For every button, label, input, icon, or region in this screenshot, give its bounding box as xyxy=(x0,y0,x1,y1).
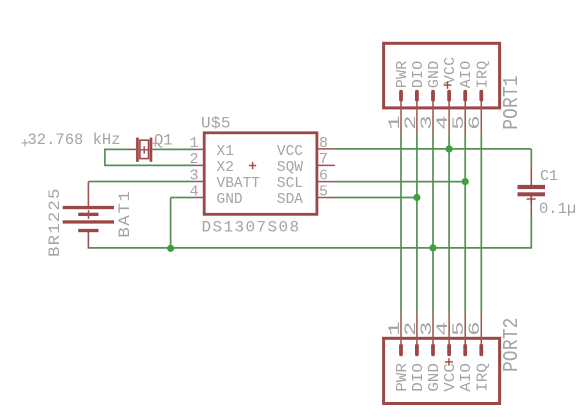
PORT2 pin 5 lead xyxy=(464,313,466,345)
svg-text:5: 5 xyxy=(319,183,328,200)
svg-text:PWR: PWR xyxy=(395,61,411,88)
PORT2 pin 3 pad xyxy=(431,344,435,357)
svg-text:0.1µ: 0.1µ xyxy=(539,200,576,218)
wire net VCC: IC pin 8 to right corner xyxy=(334,149,531,166)
battery BAT1 plate 1 (long) xyxy=(63,206,114,209)
IC pin 5 stub (SDA) xyxy=(317,197,334,199)
crystal Q1 right lead xyxy=(153,148,156,150)
wire column VCC between ports xyxy=(448,133,450,313)
connector PORT1 box xyxy=(384,43,500,108)
wire net SDA: IC pin 5 to DIO column xyxy=(334,197,417,199)
svg-text:GND: GND xyxy=(427,61,443,88)
PORT1 pin 5 pad xyxy=(463,90,467,102)
wire GND bus horizontal xyxy=(88,247,531,249)
PORT2 pin 6 lead xyxy=(480,313,482,345)
PORT1 pin 6 lead xyxy=(480,101,482,134)
battery BAT1 plate 3 (long) xyxy=(63,220,114,223)
junction GND bus / GND column xyxy=(429,244,436,251)
capacitor C1 bottom plate xyxy=(518,192,546,196)
svg-text:Q1: Q1 xyxy=(154,132,173,150)
IC pin 6 stub (SCL) xyxy=(317,181,335,183)
wire net GND: IC pin 4 to vertical drop xyxy=(171,198,193,249)
battery BAT1 bottom lead xyxy=(87,232,89,249)
PORT1 pin 2 lead xyxy=(416,101,418,134)
wire net X1: crystal right side to IC pin 1 xyxy=(155,148,193,150)
battery BAT1 plate 2 (short) xyxy=(78,213,98,216)
svg-text:IRQ: IRQ xyxy=(476,61,492,88)
IC pin 8 stub (VCC) xyxy=(317,148,334,150)
wire net X1: from loop corner to crystal left lead xyxy=(105,148,129,150)
crystal Q1 origin cross xyxy=(141,146,148,153)
wire net X2: left vertical of loop xyxy=(104,149,106,166)
svg-text:VBATT: VBATT xyxy=(217,176,261,192)
IC pin 4 stub (GND) xyxy=(193,197,204,199)
IC pin 1 stub (X1) xyxy=(193,148,204,150)
svg-text:SQW: SQW xyxy=(277,160,303,176)
svg-text:AIO: AIO xyxy=(458,363,475,392)
PORT2 pin 3 lead xyxy=(432,313,434,345)
PORT2 pin 2 lead xyxy=(416,313,418,345)
svg-text:U$5: U$5 xyxy=(201,115,231,133)
PORT2 pin 5 pad xyxy=(463,344,467,357)
capacitor C1 top lead xyxy=(530,166,532,185)
crystal Q1 body xyxy=(140,140,149,158)
svg-text:6: 6 xyxy=(467,322,485,336)
label 32.768 kHz origin cross (gray) xyxy=(21,140,28,147)
connector PORT2 box xyxy=(384,338,500,403)
wire column IRQ between ports xyxy=(480,133,482,313)
PORT2 pin 4 lead xyxy=(448,313,450,345)
PORT2 pin 2 pad xyxy=(415,344,419,357)
junction VCC row / VCC column xyxy=(446,145,453,152)
junction GND bus / IC GND drop xyxy=(167,245,174,252)
crystal Q1 right plate xyxy=(150,138,153,162)
svg-text:AIO: AIO xyxy=(459,61,475,88)
svg-text:DIO: DIO xyxy=(411,61,427,88)
svg-text:PORT1: PORT1 xyxy=(499,75,523,130)
PORT2 pin 6 pad xyxy=(479,344,483,357)
svg-text:32.768 kHz: 32.768 kHz xyxy=(28,131,121,149)
svg-text:6: 6 xyxy=(319,167,328,184)
IC U$5 origin cross xyxy=(249,162,256,169)
wire column DIO between ports xyxy=(416,133,418,313)
wire net X2: horizontal to IC pin 2 xyxy=(104,164,193,166)
svg-text:6: 6 xyxy=(467,115,485,129)
svg-text:VCC: VCC xyxy=(443,57,459,84)
svg-text:2: 2 xyxy=(189,151,198,168)
svg-text:8: 8 xyxy=(319,135,328,152)
svg-text:VCC: VCC xyxy=(277,144,303,160)
svg-text:SCL: SCL xyxy=(277,176,303,192)
wire net SCL: IC pin 6 to AIO column xyxy=(335,181,465,183)
battery BAT1 top lead xyxy=(87,182,89,207)
crystal Q1 left plate xyxy=(136,138,139,162)
PORT1 pin 5 lead xyxy=(464,101,466,134)
wire C1 bottom lead to GND bus xyxy=(530,216,532,249)
svg-text:DS1307S08: DS1307S08 xyxy=(202,219,301,237)
PORT1 pin 3 lead xyxy=(432,101,434,134)
wire column AIO between ports xyxy=(464,133,466,313)
svg-text:IRQ: IRQ xyxy=(474,363,491,392)
PORT1 pin 1 pad xyxy=(399,90,403,102)
battery BAT1 plate 4 (short) xyxy=(78,229,98,232)
IC pin 3 stub (VBATT) xyxy=(193,181,204,183)
svg-text:X1: X1 xyxy=(217,144,234,160)
wire column GND between ports xyxy=(432,133,434,313)
battery BAT1 plus tick xyxy=(88,210,90,219)
svg-text:1: 1 xyxy=(189,135,198,152)
wire net VBATT: battery top to IC pin 3 xyxy=(88,181,193,183)
svg-text:BAT1: BAT1 xyxy=(117,189,135,237)
svg-text:DIO: DIO xyxy=(410,363,427,392)
PORT1 pin 4 pad xyxy=(447,90,451,102)
junction SDA row / DIO column xyxy=(413,194,420,201)
IC pin 7 stub (SQW, unconnected) xyxy=(317,164,335,166)
PORT1 pin 6 pad xyxy=(479,90,483,102)
svg-text:3: 3 xyxy=(189,167,198,184)
junction SCL row / AIO column xyxy=(462,178,469,185)
svg-text:GND: GND xyxy=(217,192,243,208)
PORT1 pin 3 pad xyxy=(431,90,435,102)
IC U$5 box xyxy=(204,133,317,215)
svg-text:BR1225: BR1225 xyxy=(46,187,64,257)
svg-text:GND: GND xyxy=(426,363,443,392)
label Q1 origin cross (gray) xyxy=(152,140,159,147)
capacitor C1 origin cross xyxy=(527,195,536,202)
svg-text:4: 4 xyxy=(189,183,198,200)
svg-text:SDA: SDA xyxy=(277,192,303,208)
crystal Q1 left lead xyxy=(128,148,136,150)
PORT1 pin 2 pad xyxy=(415,90,419,102)
IC pin 2 stub (X2) xyxy=(193,164,204,166)
svg-text:X2: X2 xyxy=(217,160,234,176)
PORT2 pin 4 pad xyxy=(447,344,451,357)
svg-text:VCC: VCC xyxy=(442,363,459,392)
PORT2 pin 4 origin cross (red) xyxy=(445,358,453,365)
PORT1 pin 4 origin cross (red) xyxy=(444,81,452,88)
PORT1 pin 1 lead xyxy=(400,101,402,134)
capacitor C1 top plate xyxy=(518,185,546,189)
PORT2 pin 1 pad xyxy=(399,344,403,357)
svg-text:PWR: PWR xyxy=(394,363,411,392)
svg-text:PORT2: PORT2 xyxy=(499,317,523,372)
capacitor C1 bottom lead xyxy=(530,196,532,216)
svg-text:7: 7 xyxy=(319,151,328,168)
wire column PWR between ports xyxy=(400,133,402,313)
PORT2 pin 1 lead xyxy=(400,313,402,345)
PORT1 pin 4 lead xyxy=(448,101,450,134)
svg-text:C1: C1 xyxy=(540,168,558,185)
